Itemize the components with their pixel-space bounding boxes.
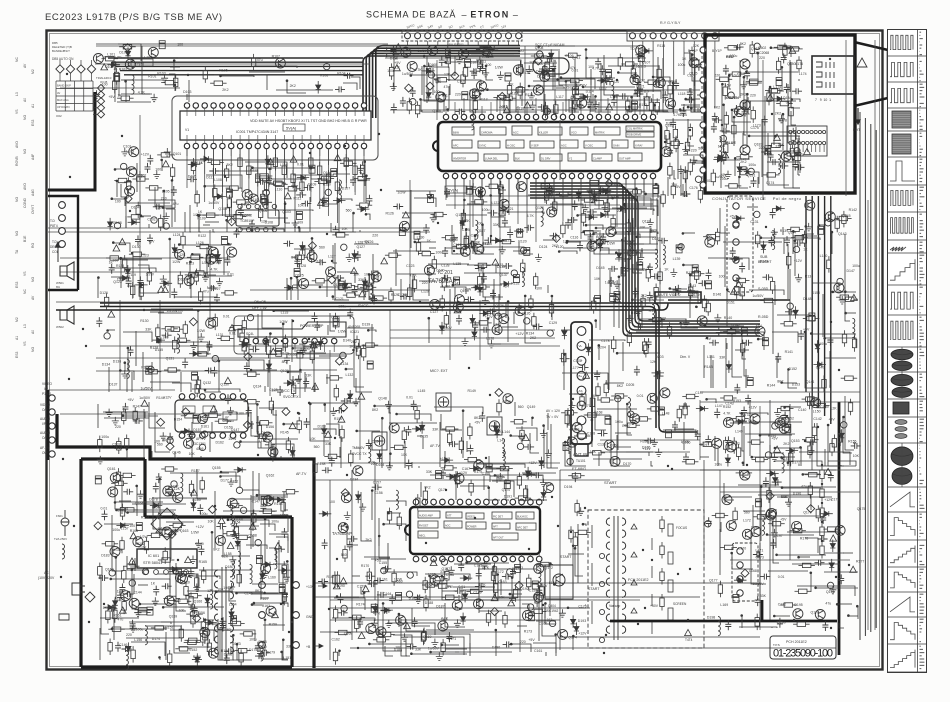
wire bbox=[393, 250, 430, 252]
node bbox=[197, 309, 200, 312]
IC601 STR58041 bbox=[137, 549, 197, 568]
wire bbox=[444, 451, 446, 468]
wire bbox=[683, 264, 694, 266]
wire IF top runs bbox=[390, 46, 700, 100]
svg-text:D168: D168 bbox=[594, 411, 602, 415]
resistor bbox=[254, 434, 271, 438]
svg-text:L150: L150 bbox=[813, 409, 821, 413]
svg-text:D137: D137 bbox=[109, 382, 117, 386]
wire bbox=[359, 230, 361, 232]
svg-text:D139: D139 bbox=[362, 322, 370, 326]
capacitor bbox=[162, 332, 172, 338]
svg-text:MIC?. EXT: MIC?. EXT bbox=[430, 369, 448, 373]
svg-text:FOCUS: FOCUS bbox=[676, 526, 687, 530]
node bbox=[122, 414, 125, 417]
ground bbox=[587, 187, 594, 195]
svg-text:+5V: +5V bbox=[649, 229, 656, 233]
capacitor bbox=[595, 58, 601, 68]
svg-text:R170: R170 bbox=[361, 564, 369, 568]
diode bbox=[585, 215, 598, 220]
svg-text:DL DRV: DL DRV bbox=[541, 157, 551, 161]
capacitor bbox=[128, 346, 134, 356]
svg-text:+12V: +12V bbox=[794, 259, 803, 263]
svg-text:Q136: Q136 bbox=[495, 304, 504, 308]
resistor bbox=[292, 255, 309, 259]
IC001 TMP47C434N microcontroller bbox=[180, 111, 371, 140]
svg-text:C123: C123 bbox=[406, 264, 414, 268]
node bbox=[582, 86, 585, 89]
left bus bundle horizontal bbox=[108, 58, 363, 75]
wire bbox=[352, 213, 354, 232]
svg-text:R110: R110 bbox=[323, 183, 331, 187]
capacitor bbox=[246, 407, 252, 417]
diode bbox=[486, 46, 499, 51]
wire bbox=[186, 94, 188, 100]
wire bbox=[339, 447, 341, 458]
wire bbox=[776, 356, 778, 378]
node bbox=[844, 312, 847, 315]
diode bbox=[470, 314, 475, 327]
wire bbox=[163, 191, 165, 228]
bus bundle jungle to CRT (6 lines rounded) bbox=[530, 183, 760, 336]
node bbox=[296, 276, 299, 279]
wire bbox=[310, 404, 329, 441]
node bbox=[542, 424, 545, 427]
svg-text:L146: L146 bbox=[681, 440, 689, 444]
capacitor bbox=[465, 59, 471, 67]
wire bbox=[293, 174, 334, 176]
node bbox=[282, 323, 285, 326]
wire bbox=[373, 271, 378, 281]
resistor bbox=[770, 278, 774, 295]
ground bbox=[586, 98, 593, 106]
wire bbox=[126, 374, 128, 392]
svg-text:2K2: 2K2 bbox=[290, 84, 296, 88]
wire bbox=[551, 296, 553, 320]
svg-text:D186: D186 bbox=[492, 645, 500, 649]
transistor bbox=[184, 438, 194, 448]
wire bbox=[282, 324, 284, 351]
wire bbox=[491, 195, 504, 217]
node bbox=[556, 78, 559, 81]
wire bbox=[247, 423, 254, 425]
svg-text:D116: D116 bbox=[631, 65, 639, 69]
wire bbox=[205, 221, 219, 223]
capacitor bbox=[454, 277, 460, 285]
inductor bbox=[522, 267, 524, 286]
wire bbox=[136, 163, 138, 192]
svg-text:Varicap: Varicap bbox=[609, 604, 620, 608]
ground bbox=[430, 214, 437, 222]
svg-text:0.01: 0.01 bbox=[406, 395, 413, 399]
capacitor bbox=[135, 235, 141, 245]
transistor bbox=[492, 325, 502, 335]
svg-text:8K2: 8K2 bbox=[372, 408, 378, 412]
svg-text:Dim. V: Dim. V bbox=[680, 355, 691, 359]
diode bbox=[761, 241, 766, 254]
node bbox=[726, 288, 729, 291]
svg-text:D184: D184 bbox=[350, 478, 358, 482]
ground bbox=[163, 213, 170, 221]
resistor bbox=[224, 165, 228, 182]
svg-text:L120: L120 bbox=[556, 245, 564, 249]
wire bbox=[531, 418, 533, 426]
svg-text:D164: D164 bbox=[376, 463, 384, 467]
ground bbox=[683, 319, 690, 327]
svg-text:A0: A0 bbox=[23, 98, 27, 102]
transistor bbox=[499, 314, 509, 324]
wire bbox=[381, 418, 383, 468]
svg-text:0.01: 0.01 bbox=[637, 394, 644, 398]
svg-text:C133: C133 bbox=[502, 400, 510, 404]
svg-text:4.7K: 4.7K bbox=[527, 214, 535, 218]
wire bbox=[745, 369, 747, 388]
svg-text:L137: L137 bbox=[493, 313, 501, 317]
warning mark bbox=[503, 107, 510, 113]
node bbox=[679, 108, 682, 111]
resistor bbox=[588, 189, 605, 193]
node bbox=[218, 360, 221, 363]
ground bbox=[546, 188, 553, 196]
svg-text:C136: C136 bbox=[598, 443, 606, 447]
resistor bbox=[183, 321, 187, 338]
wire bbox=[205, 275, 232, 277]
resistor bbox=[507, 82, 511, 99]
capacitor bbox=[350, 176, 356, 186]
wire bbox=[650, 297, 698, 298]
wire bbox=[567, 241, 581, 243]
resistor bbox=[310, 347, 314, 364]
wire bbox=[213, 229, 215, 232]
junction dots scatter bbox=[60, 58, 850, 654]
svg-text:D198: D198 bbox=[707, 616, 715, 620]
wire bbox=[410, 190, 412, 248]
svg-text:RGVB: RGVB bbox=[15, 156, 19, 166]
svg-text:L138: L138 bbox=[486, 337, 494, 341]
capacitor bbox=[355, 251, 361, 261]
wire bbox=[337, 272, 355, 283]
svg-text:L3: L3 bbox=[23, 324, 27, 328]
svg-text:R176: R176 bbox=[800, 537, 808, 541]
diode bbox=[539, 457, 544, 470]
warning mark bbox=[730, 288, 737, 294]
wire bbox=[500, 240, 507, 242]
resistor bbox=[573, 96, 577, 113]
svg-text:1K: 1K bbox=[113, 67, 118, 71]
node bbox=[531, 417, 534, 420]
svg-text:L130: L130 bbox=[417, 235, 425, 239]
wire bbox=[557, 107, 559, 112]
capacitor bbox=[296, 192, 306, 198]
svg-text:Q150: Q150 bbox=[610, 444, 619, 448]
svg-text:L156: L156 bbox=[134, 638, 142, 642]
svg-text:10K: 10K bbox=[474, 240, 481, 244]
svg-text:L125: L125 bbox=[207, 285, 215, 289]
svg-text:12K: 12K bbox=[261, 220, 268, 224]
diode bbox=[215, 251, 220, 264]
oscillogram caption ticks bbox=[920, 32, 925, 668]
wire bbox=[793, 235, 817, 237]
capacitor bbox=[680, 107, 686, 117]
wire bbox=[625, 243, 658, 245]
svg-text:D134: D134 bbox=[102, 363, 110, 367]
resistor bbox=[473, 285, 490, 289]
svg-text:R111: R111 bbox=[294, 197, 302, 201]
wire bbox=[744, 348, 749, 376]
svg-text:Q177: Q177 bbox=[709, 578, 718, 582]
svg-text:KILLER: KILLER bbox=[539, 131, 548, 135]
wire bbox=[300, 369, 337, 371]
wire bbox=[272, 444, 294, 458]
svg-text:1/2W: 1/2W bbox=[140, 535, 149, 539]
svg-text:C170: C170 bbox=[578, 604, 586, 608]
wire bbox=[550, 424, 552, 468]
svg-text:C120: C120 bbox=[314, 259, 322, 263]
diode bbox=[266, 360, 271, 373]
svg-text:L131: L131 bbox=[216, 333, 224, 337]
capacitor bbox=[600, 233, 606, 243]
svg-text:+13V: +13V bbox=[306, 585, 315, 589]
svg-text:2K2: 2K2 bbox=[365, 538, 371, 542]
resistor bbox=[464, 232, 468, 249]
transistor bbox=[399, 221, 409, 231]
wire bbox=[271, 178, 307, 180]
diode bbox=[300, 242, 305, 255]
transistor bbox=[93, 54, 103, 64]
wire bbox=[712, 360, 714, 388]
svg-text:R109: R109 bbox=[197, 217, 205, 221]
diode bbox=[726, 361, 731, 374]
transistor bbox=[655, 78, 665, 88]
connector pin bbox=[520, 247, 526, 253]
transistor bbox=[503, 394, 513, 404]
svg-text:220: 220 bbox=[422, 281, 428, 285]
capacitor bbox=[588, 240, 594, 250]
svg-text:Q137: Q137 bbox=[499, 273, 508, 277]
wire bbox=[559, 51, 581, 85]
wire bbox=[327, 325, 329, 335]
diode bbox=[538, 69, 551, 74]
svg-text:R101: R101 bbox=[148, 74, 156, 78]
svg-text:L139: L139 bbox=[673, 257, 681, 261]
wire bbox=[614, 95, 640, 97]
connector pin bbox=[121, 163, 127, 169]
svg-text:SYNC: SYNC bbox=[479, 144, 486, 148]
svg-text:L163: L163 bbox=[545, 618, 553, 622]
transistor bbox=[206, 318, 216, 328]
ground bbox=[488, 340, 495, 348]
svg-text:D111: D111 bbox=[206, 176, 214, 180]
resistor bbox=[556, 192, 573, 196]
diode bbox=[172, 244, 177, 256]
capacitor bbox=[146, 366, 152, 374]
svg-text:0.01: 0.01 bbox=[101, 507, 108, 511]
wire bbox=[661, 318, 663, 328]
svg-text:D144: D144 bbox=[631, 311, 639, 315]
capacitor bbox=[393, 204, 403, 210]
resistor bbox=[841, 376, 858, 380]
capacitor bbox=[687, 88, 693, 98]
capacitor bbox=[762, 338, 768, 346]
svg-text:560: 560 bbox=[319, 246, 325, 250]
capacitor bbox=[675, 285, 681, 295]
svg-text:ET-68/G: ET-68/G bbox=[572, 467, 586, 471]
ground bbox=[771, 228, 778, 236]
svg-text:560: 560 bbox=[341, 553, 347, 557]
node bbox=[291, 347, 294, 350]
resistor bbox=[314, 179, 331, 183]
wire bbox=[528, 194, 551, 196]
wire bbox=[299, 228, 301, 232]
diode bbox=[128, 220, 141, 225]
capacitor bbox=[262, 199, 272, 205]
transistor bbox=[248, 194, 258, 204]
svg-text:VCO: VCO bbox=[571, 131, 577, 135]
wire bbox=[629, 200, 658, 216]
diode bbox=[493, 422, 498, 435]
resistor bbox=[621, 263, 625, 280]
capacitor bbox=[316, 259, 326, 265]
resistor bbox=[740, 283, 744, 300]
connector pin bbox=[537, 51, 543, 57]
wire bbox=[483, 264, 503, 297]
wire bbox=[371, 324, 373, 348]
connector pin bbox=[511, 270, 517, 276]
capacitor bbox=[827, 336, 833, 346]
transistor bbox=[540, 72, 550, 82]
capacitor bbox=[400, 97, 406, 107]
node bbox=[537, 45, 540, 48]
svg-text:L124: L124 bbox=[173, 233, 181, 237]
svg-text:I/P: I/P bbox=[42, 422, 46, 426]
resistor bbox=[356, 203, 373, 207]
svg-text:AVO: AVO bbox=[15, 141, 19, 148]
capacitor bbox=[730, 247, 736, 257]
resistor bbox=[468, 423, 472, 440]
diode bbox=[228, 218, 236, 226]
svg-text:0.01: 0.01 bbox=[778, 575, 785, 579]
wire bbox=[155, 412, 170, 452]
diode bbox=[592, 190, 597, 203]
svg-text:100u: 100u bbox=[249, 638, 257, 642]
svg-text:100u: 100u bbox=[364, 273, 372, 277]
svg-text:B1E: B1E bbox=[23, 235, 27, 242]
capacitor bbox=[367, 361, 373, 369]
resistor bbox=[196, 376, 200, 393]
wire bbox=[125, 216, 127, 228]
transistor bbox=[460, 246, 470, 256]
svg-text:1/2W: 1/2W bbox=[481, 55, 490, 59]
resistor bbox=[537, 184, 554, 188]
svg-text:D126: D126 bbox=[100, 291, 108, 295]
svg-text:L141: L141 bbox=[707, 355, 715, 359]
svg-text:33K: 33K bbox=[464, 219, 471, 223]
inductor bbox=[368, 443, 370, 462]
capacitor bbox=[784, 236, 790, 246]
svg-text:Q126: Q126 bbox=[365, 240, 374, 244]
svg-text:L111: L111 bbox=[667, 104, 674, 108]
svg-text:IC001 TMP47C434N 3147: IC001 TMP47C434N 3147 bbox=[236, 130, 278, 134]
wire bbox=[625, 206, 658, 216]
wire bbox=[366, 214, 370, 220]
svg-text:L112: L112 bbox=[599, 87, 607, 91]
capacitor bbox=[294, 269, 300, 277]
wire bbox=[732, 334, 742, 377]
wire bbox=[608, 65, 659, 67]
resistor bbox=[440, 295, 444, 312]
diode bbox=[108, 218, 113, 231]
svg-text:L165: L165 bbox=[428, 573, 436, 577]
warning mark bbox=[614, 296, 621, 302]
node bbox=[251, 229, 254, 232]
svg-text:C156: C156 bbox=[374, 491, 382, 495]
svg-text:4.7K: 4.7K bbox=[673, 113, 681, 117]
node bbox=[832, 291, 835, 294]
capacitor bbox=[549, 68, 555, 76]
wire bbox=[616, 252, 658, 254]
node bbox=[810, 332, 813, 335]
svg-text:+5V: +5V bbox=[780, 517, 787, 521]
svg-text:L136: L136 bbox=[442, 285, 450, 289]
wire bbox=[595, 96, 611, 112]
svg-text:+5V: +5V bbox=[633, 305, 640, 309]
wire bbox=[214, 75, 267, 90]
svg-text:R-Y G-Y B-Y: R-Y G-Y B-Y bbox=[660, 21, 681, 25]
wire bbox=[772, 302, 774, 354]
svg-text:Q179: Q179 bbox=[803, 511, 812, 515]
capacitor bbox=[390, 46, 396, 56]
transistor bbox=[227, 247, 237, 257]
transistor bbox=[184, 276, 194, 286]
resistor bbox=[385, 253, 402, 257]
node bbox=[576, 214, 579, 217]
svg-text:D124: D124 bbox=[539, 245, 547, 249]
wire bbox=[543, 71, 545, 111]
deflection connector right bbox=[732, 543, 758, 601]
wire bbox=[330, 313, 335, 331]
connector pin bbox=[163, 223, 169, 229]
ground bbox=[190, 341, 197, 349]
resistor bbox=[161, 80, 178, 84]
capacitor bbox=[577, 241, 583, 251]
svg-text:+5V: +5V bbox=[474, 420, 481, 424]
svg-text:AUDIO AMP: AUDIO AMP bbox=[419, 515, 433, 518]
wire bbox=[470, 90, 486, 112]
svg-text:100: 100 bbox=[329, 500, 335, 504]
svg-text:D167: D167 bbox=[622, 424, 630, 428]
svg-text:R123: R123 bbox=[186, 261, 194, 265]
ground bbox=[462, 338, 469, 346]
svg-text:10K: 10K bbox=[401, 453, 408, 457]
svg-text:ABCL: ABCL bbox=[419, 535, 426, 538]
capacitor bbox=[391, 103, 397, 113]
wire bbox=[120, 258, 122, 288]
wire bbox=[288, 371, 302, 373]
svg-text:01-235090-100: 01-235090-100 bbox=[773, 648, 833, 660]
svg-text:L161: L161 bbox=[380, 577, 388, 581]
transistor bbox=[307, 252, 317, 262]
left thick audio boundary bbox=[48, 92, 95, 190]
node bbox=[462, 409, 465, 412]
transistor bbox=[275, 58, 285, 68]
resistor bbox=[571, 94, 588, 98]
wire bbox=[600, 249, 658, 251]
node bbox=[558, 250, 561, 253]
wire bbox=[395, 249, 397, 286]
resistor bbox=[349, 450, 353, 467]
ground bbox=[353, 398, 360, 406]
svg-text:47u: 47u bbox=[801, 485, 807, 489]
